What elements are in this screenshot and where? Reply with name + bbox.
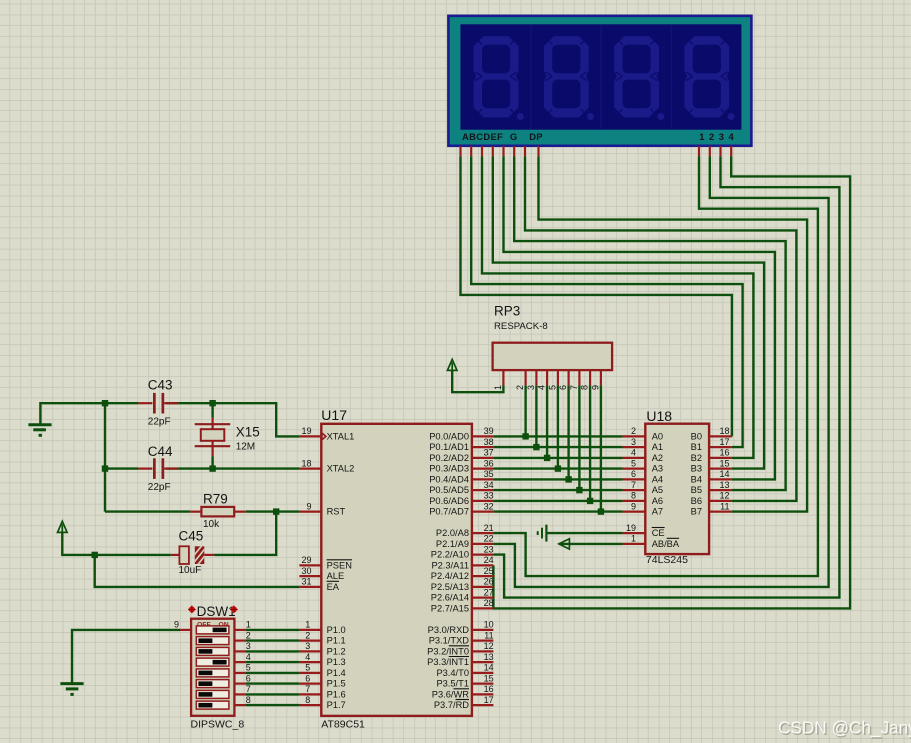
U18 pin 11 (B7) stub [709,511,732,513]
svg-text:P3.1/TXD: P3.1/TXD [429,636,470,646]
wire: power terminal to C45 left [62,533,171,555]
wire: C45 node to U17 EA [95,555,300,587]
wire: U17 P0.2 to U18 A2 bus row [493,457,622,459]
DSW1 switch 5 slot [196,669,229,677]
wire: DSW1 pin 5 to U17 P1.4 [245,672,299,674]
svg-text:9: 9 [174,620,179,630]
wire: RP3 pin 5 down to P0.3 node [557,385,559,468]
junction: RP3 pin 2 on P0.0 bus [522,433,528,439]
svg-text:4: 4 [631,448,636,458]
svg-text:EA: EA [327,582,340,592]
svg-text:P3.3/INT1: P3.3/INT1 [427,657,469,667]
svg-text:22pF: 22pF [148,482,171,493]
svg-text:6: 6 [305,673,310,683]
svg-text:6: 6 [631,469,636,479]
svg-text:3: 3 [631,437,636,447]
U18 pin 4 (A2) stub [623,457,646,459]
U18 pin 15 (B3) stub [709,468,732,470]
svg-text:P3.6/WR: P3.6/WR [432,689,469,699]
svg-text:23: 23 [484,544,494,554]
svg-text:B3: B3 [691,464,702,474]
junction: C43 row / vertical bus [102,400,108,406]
RP3 pin 8 stub [589,370,591,385]
U17 pin 8 (P1.7) stub [299,704,321,706]
svg-text:7: 7 [246,684,251,694]
svg-text:P0.1/AD1: P0.1/AD1 [429,442,469,452]
svg-text:P0.4/AD4: P0.4/AD4 [429,474,469,484]
svg-text:7: 7 [305,684,310,694]
U17 pin 9 (RST) stub [299,511,321,513]
svg-text:ALE: ALE [327,571,345,581]
wire: display segment E to U18 B4 (pin 14) [504,156,775,479]
svg-text:16: 16 [719,448,729,458]
junction: C43 row / X15 top [209,400,215,406]
svg-text:B5: B5 [691,485,702,495]
U18 pin 14 (B4) stub [709,478,732,480]
wire: RP3 pin 1 to power terminal [452,370,503,392]
wire: display segment F to U18 B5 (pin 13) [514,156,785,490]
svg-text:A0: A0 [652,431,663,441]
svg-text:DIPSWC_8: DIPSWC_8 [191,718,245,730]
svg-text:37: 37 [484,448,494,458]
svg-text:2: 2 [631,426,636,436]
U17 pin 37 (P0.2/AD2) stub [472,457,494,459]
U18 pin 3 (A1) stub [623,446,646,448]
U17 pin 1 (P1.0) stub [299,629,321,631]
junction: RP3 pin 9 on P0.7 bus [598,508,604,514]
svg-text:P1.1: P1.1 [327,636,346,646]
svg-text:XTAL1: XTAL1 [327,431,355,441]
DSW1 pin 6 stub [234,682,245,684]
display digit 3 glyph (figure 8) [614,36,664,120]
crystal X15 [195,418,231,457]
DSW1 pin 7 stub [234,693,245,695]
wire: DSW1 pin 7 to U17 P1.6 [245,693,299,695]
display digit separator 1 [530,24,532,129]
svg-text:1: 1 [631,534,636,544]
wire: display segment C to U18 B2 (pin 16) [482,156,753,458]
svg-text:A5: A5 [652,485,663,495]
svg-text:P2.1/A9: P2.1/A9 [436,539,469,549]
display segment pins A-DP [461,146,539,157]
svg-text:P0.7/AD7: P0.7/AD7 [429,507,469,517]
svg-text:3: 3 [305,641,310,651]
wire: display segment G to U18 B6 (pin 12) [525,156,796,501]
U17 pin 32 (P0.7/AD7) stub [472,511,494,513]
svg-text:P2.2/A10: P2.2/A10 [431,550,469,560]
U18 pin 12 (B6) stub [709,500,732,502]
svg-text:10uF: 10uF [179,565,202,576]
svg-text:12: 12 [719,491,729,501]
wire: DSW1 pin 3 to U17 P1.2 [245,650,299,652]
svg-text:26: 26 [484,577,494,587]
U17 pin 28 (P2.7/A15) stub [472,607,494,609]
wire: U17 P2.1 to display digit 2 [493,156,828,587]
U18 pin 6 (A4) stub [623,478,646,480]
svg-text:17: 17 [484,695,494,705]
wire: DSW1 pin 1 to U17 P1.0 [245,629,299,631]
svg-text:P1.7: P1.7 [327,700,346,710]
svg-text:11: 11 [720,501,729,511]
svg-text:P0.2/AD2: P0.2/AD2 [429,453,469,463]
svg-text:9: 9 [306,501,311,511]
U17 pin 39 (P0.0/AD0) stub [472,435,494,437]
svg-text:B6: B6 [691,496,702,506]
svg-text:XTAL2: XTAL2 [327,464,355,474]
display digit pins 1-4 [699,146,731,157]
svg-text:10: 10 [484,620,494,630]
svg-text:18: 18 [719,426,729,436]
svg-text:AT89C51: AT89C51 [321,718,365,730]
7-segment display: outer frame [448,16,751,146]
svg-text:CSDN @Ch_Jany: CSDN @Ch_Jany [778,717,911,737]
svg-text:4: 4 [246,652,251,662]
svg-text:P2.5/A13: P2.5/A13 [431,582,469,592]
svg-text:12M: 12M [236,442,255,453]
DSW1 switch 6 slot [196,680,229,688]
svg-text:17: 17 [719,437,729,447]
RP3 pin 6 stub [567,370,569,385]
junction: C44 row / X15 bottom [209,465,215,471]
svg-text:P3.0/RXD: P3.0/RXD [428,625,470,635]
U17 pin 4 (P1.3) stub [299,661,321,663]
U17 pin 13 (P3.3) stub [472,661,494,663]
svg-text:32: 32 [484,501,494,511]
wire: U17 P0.0 to U18 A0 bus row [493,435,622,437]
U17 pin 30 (ALE) stub [299,575,321,577]
U17 pin 2 (P1.1) stub [299,639,321,641]
svg-text:B1: B1 [691,442,702,452]
DSW1 switch 7 slot [196,690,229,698]
U17 pin 16 (P3.6) stub [472,693,494,695]
svg-text:P1.4: P1.4 [327,668,346,678]
wire: DSW1 pin 9 to ground [72,630,180,684]
svg-text:P1.3: P1.3 [327,657,346,667]
DSW1 switch 4 slot [196,658,229,666]
power terminal (VCC arrow) near C45 [58,521,68,532]
U17 pin 12 (P3.2) stub [472,650,494,652]
wire: C43 right to U17 XTAL1 [166,403,299,436]
U17 pin 3 (P1.2) stub [299,650,321,652]
svg-text:33: 33 [484,491,494,501]
svg-text:19: 19 [626,523,636,533]
svg-text:P0.3/AD3: P0.3/AD3 [429,464,469,474]
wire: C44 right to U17 XTAL2 [166,467,299,469]
DSW1 switch 3 slot [196,647,229,655]
DSW1 red origin marker right [230,606,238,614]
U17 pin 35 (P0.4/AD4) stub [472,478,494,480]
svg-text:ABCDEF: ABCDEF [462,131,503,142]
U18 pin 1 (AB/BA) stub [623,543,646,545]
svg-text:RP3: RP3 [494,304,520,319]
U17 pin 38 (P0.1/AD1) stub [472,446,494,448]
svg-text:5: 5 [631,458,636,468]
svg-text:19: 19 [301,426,311,436]
svg-text:74LS245: 74LS245 [646,554,688,566]
RP3 pin 7 stub [578,370,580,385]
svg-text:U17: U17 [321,407,347,423]
junction: RP3 pin 6 on P0.4 bus [565,476,571,482]
svg-text:28: 28 [484,598,494,608]
RP3 pin 9 stub [600,370,602,385]
svg-text:36: 36 [484,458,494,468]
power terminal (left arrow) on U18 AB/BA [559,539,570,549]
resistor pack RP3 body [493,343,612,370]
svg-text:14: 14 [484,663,494,673]
svg-text:2: 2 [305,630,310,640]
svg-text:12: 12 [484,641,494,651]
power terminal (VCC arrow) for RP3 pin 1 [447,359,457,370]
ground bar (sideways) on U18 CE [538,525,547,542]
svg-text:P1.0: P1.0 [327,625,346,635]
DSW1 pin 9 stub [180,629,191,631]
junction: RP3 pin 5 on P0.3 bus [555,465,561,471]
U17 pin 25 (P2.4/A12) stub [472,575,494,577]
U17 pin 11 (P3.1) stub [472,639,494,641]
svg-text:25: 25 [484,566,494,576]
svg-text:35: 35 [484,469,494,479]
svg-text:X15: X15 [236,425,260,440]
svg-text:C43: C43 [148,378,173,393]
wire: DSW1 pin 6 to U17 P1.5 [245,682,299,684]
wire: display segment B to U18 B1 (pin 17) [471,156,742,447]
wire: ground bar to U18 CE [546,532,622,534]
DSW1 switch 1 slot [196,626,229,634]
DIP switch DSW1 body [191,619,234,716]
svg-text:P1.2: P1.2 [327,646,346,656]
svg-text:P2.3/A11: P2.3/A11 [431,560,469,570]
wire: RP3 pin 8 down to P0.6 node [589,385,591,501]
junction: RST row / C45 branch [273,508,279,514]
DSW1 pin 4 stub [234,661,245,663]
svg-text:3: 3 [526,385,536,390]
svg-text:P3.5/T1: P3.5/T1 [436,679,469,689]
U17 pin 29 (PSEN) stub [299,564,321,566]
junction: RP3 pin 4 on P0.2 bus [544,455,550,461]
svg-text:P3.4/T0: P3.4/T0 [436,668,469,678]
ground symbol (top left, XTAL net) [28,425,51,436]
svg-text:11: 11 [484,630,493,640]
svg-text:34: 34 [484,480,494,490]
svg-text:9: 9 [631,501,636,511]
wire: display segment DP to U18 B7 (pin 11) [539,156,808,511]
U17 pin 6 (P1.5) stub [299,682,321,684]
svg-text:5: 5 [547,385,557,390]
svg-text:B4: B4 [691,474,702,484]
op IC U17 AT89C51 body [321,424,472,716]
svg-text:P3.7/RD: P3.7/RD [434,700,469,710]
junction: C45 row / EA branch [92,552,98,558]
U17 pin 33 (P0.6/AD6) stub [472,500,494,502]
svg-text:2: 2 [515,385,525,390]
svg-text:DP: DP [529,131,543,142]
DSW1 pin 5 stub [234,672,245,674]
wire: DSW1 pin 4 to U17 P1.3 [245,661,299,663]
display digit 4 glyph (figure 8) [684,36,734,120]
U17 pin 36 (P0.3/AD3) stub [472,468,494,470]
svg-text:5: 5 [246,663,251,673]
wire: U17 P0.4 to U18 A4 bus row [493,478,622,480]
svg-text:16: 16 [484,684,494,694]
svg-text:P2.7/A15: P2.7/A15 [431,603,469,613]
display digit 1 glyph (figure 8) [474,36,524,120]
svg-text:30: 30 [301,566,311,576]
DSW1 pin 1 stub [234,629,245,631]
svg-text:8: 8 [246,695,251,705]
U17 pin 31 (EA) stub [299,586,321,588]
U17 pin 24 (P2.3/A11) stub [472,564,494,566]
U17 pin 5 (P1.4) stub [299,672,321,674]
svg-text:13: 13 [484,652,494,662]
svg-text:A2: A2 [652,453,663,463]
svg-text:A6: A6 [652,496,663,506]
svg-text:P1.5: P1.5 [327,679,346,689]
svg-text:9: 9 [590,385,600,390]
ground symbol (bottom left, DSW1 net) [60,684,83,695]
DSW1 pin 3 stub [234,650,245,652]
svg-text:1: 1 [493,385,503,390]
7-segment display: screen [460,24,741,129]
U17 pin 7 (P1.6) stub [299,693,321,695]
wire: U17 P0.1 to U18 A1 bus row [493,446,622,448]
U17 pin 22 (P2.1/A9) stub [472,543,494,545]
wire: U17 P0.5 to U18 A5 bus row [493,489,622,491]
svg-text:15: 15 [484,673,494,683]
svg-text:P0.5/AD5: P0.5/AD5 [429,485,469,495]
svg-text:P1.6: P1.6 [327,689,346,699]
U17 pin 23 (P2.2/A10) stub [472,553,494,555]
svg-text:C45: C45 [179,528,204,543]
wire: power arrow to U18 AB/BA [559,543,623,545]
svg-text:4: 4 [537,385,547,390]
svg-text:A3: A3 [652,464,663,474]
wire: left vertical bus C43/C44/R79 [104,403,106,511]
svg-text:B7: B7 [691,507,702,517]
U17 pin 17 (P3.7) stub [472,704,494,706]
display digit separator 2 [600,24,602,129]
RP3 pin 5 stub [557,370,559,385]
wire: node to X15 top [211,403,213,417]
wire: U17 P2.2 to display digit 3 [493,156,839,597]
svg-text:B0: B0 [691,431,702,441]
U18 pin 9 (A7) stub [623,511,646,513]
svg-text:7: 7 [631,480,636,490]
wire: RP3 pin 7 down to P0.5 node [578,385,580,490]
svg-text:4: 4 [305,652,310,662]
svg-text:U18: U18 [646,408,672,424]
capacitor C43 [138,393,178,414]
wire: vertical bus to R79 left [105,510,190,512]
svg-text:3: 3 [246,641,251,651]
wire: X15 bottom to XTAL2 row [211,456,213,468]
IC U18 74LS245 body [645,424,709,554]
U18 pin 18 (B0) stub [709,435,732,437]
U17 pin 21 (P2.0/A8) stub [472,532,494,534]
svg-text:R79: R79 [203,491,228,506]
display digit separator 3 [670,24,672,129]
svg-text:1: 1 [246,620,251,630]
svg-text:8: 8 [631,491,636,501]
svg-text:5: 5 [305,663,310,673]
wire: display segment D to U18 B3 (pin 15) [493,156,764,468]
DSW1 red origin marker left [188,606,196,614]
U18 pin 16 (B2) stub [709,457,732,459]
display digit 2 glyph (figure 8) [544,36,594,120]
DSW1 switch 2 slot [196,637,229,645]
svg-text:P0.0/AD0: P0.0/AD0 [429,431,469,441]
wire: U17 P2.3 to display digit 4 [493,156,850,608]
svg-text:6: 6 [558,385,568,390]
svg-text:C44: C44 [148,444,173,459]
svg-text:6: 6 [246,673,251,683]
svg-text:P0.6/AD6: P0.6/AD6 [429,496,469,506]
resistor R79 [190,507,245,517]
svg-text:AB/BA: AB/BA [652,539,680,549]
wire: RP3 pin 3 down to P0.1 node [535,385,537,447]
U17 pin 34 (P0.5/AD5) stub [472,489,494,491]
junction: C44 row / vertical bus [102,465,108,471]
wire: U17 P0.6 to U18 A6 bus row [493,500,622,502]
U18 pin 7 (A5) stub [623,489,646,491]
svg-text:B2: B2 [691,453,702,463]
wire: RP3 pin 9 down to P0.7 node [600,385,602,511]
RP3 pin 2 stub [524,370,526,385]
svg-text:31: 31 [301,577,311,587]
wire: U17 P2.0 to display digit 1 [493,156,818,576]
svg-text:8: 8 [580,385,590,390]
svg-text:7: 7 [569,385,579,390]
wire: RP3 pin 4 down to P0.2 node [546,385,548,458]
svg-text:39: 39 [484,426,494,436]
wire: U17 P0.7 to U18 A7 bus row [493,510,622,512]
svg-text:13: 13 [719,480,729,490]
svg-text:P3.2/INT0: P3.2/INT0 [427,646,469,656]
svg-text:P2.6/A14: P2.6/A14 [431,593,469,603]
svg-text:RESPACK-8: RESPACK-8 [494,321,548,332]
svg-text:1: 1 [305,620,310,630]
wire: vertical bus to C44 left [105,467,138,469]
wire: DSW1 pin 8 to U17 P1.7 [245,704,299,706]
wire: RP3 pin 2 down to P0.0 node [524,385,526,436]
RP3 pin 3 stub [535,370,537,385]
DSW1 pin 8 stub [234,704,245,706]
DSW1 pin 2 stub [234,639,245,641]
U18 pin 2 (A0) stub [623,435,646,437]
svg-text:27: 27 [484,587,494,597]
U17 pin 10 (P3.0) stub [472,629,494,631]
U18 pin 17 (B1) stub [709,446,732,448]
wire: RST node down to C45 right [214,512,276,555]
svg-text:CE: CE [652,528,665,538]
RP3 pin 4 stub [546,370,548,385]
RP3 pin 1 stub [502,370,504,385]
U18 pin 13 (B5) stub [709,489,732,491]
svg-text:29: 29 [301,555,311,565]
svg-text:14: 14 [719,469,729,479]
U18 pin 19 (CE) stub [623,532,646,534]
wire: display segment A to U18 B0 (pin 18) [461,156,732,436]
svg-text:PSEN: PSEN [327,560,352,570]
U17 pin 14 (P3.4) stub [472,672,494,674]
svg-text:A1: A1 [652,442,663,452]
svg-text:38: 38 [484,437,494,447]
U17 pin 26 (P2.5/A13) stub [472,586,494,588]
svg-text:1234: 1234 [699,131,738,142]
wire: R79 right to U17 RST [246,510,300,512]
capacitor C45 (electrolytic) [171,538,214,573]
svg-text:18: 18 [301,458,311,468]
svg-text:10k: 10k [203,519,220,530]
